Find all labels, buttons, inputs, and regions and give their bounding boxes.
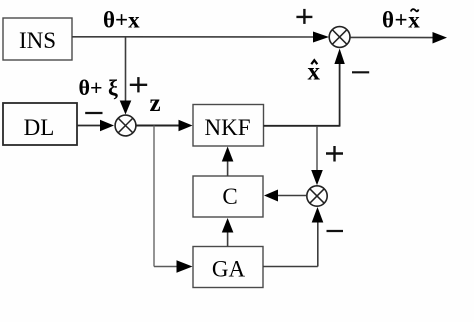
svg-text:z: z (150, 90, 161, 117)
wire z branch to GA (154, 260, 193, 272)
label minus at S3 (327, 230, 344, 232)
summer S2 (115, 115, 136, 136)
label plus at S3 (326, 146, 343, 162)
label minus at S2 (85, 112, 102, 114)
label minus at S1 (352, 71, 369, 73)
wire GA to C (222, 218, 234, 247)
svg-text:θ: θ (382, 8, 394, 33)
label plus at S1 (296, 9, 312, 24)
summer S3 (307, 186, 327, 206)
svg-text:C: C (222, 184, 237, 209)
wire NKF output (264, 125, 340, 127)
label theta+xtilde (382, 8, 420, 33)
wire INS output to summer S1 (72, 32, 329, 43)
wire DL output to summer S2 (77, 120, 114, 132)
label theta+xi (79, 75, 119, 100)
label theta+x (103, 8, 140, 33)
label xhat (308, 59, 321, 86)
box C (193, 176, 263, 217)
wire C to NKF (222, 147, 234, 177)
label plus at S2 (130, 77, 147, 92)
box NKF (193, 105, 264, 147)
wire S2 to NKF (136, 120, 192, 132)
svg-text:θ+ ξ: θ+ ξ (79, 75, 119, 100)
node z junction (153, 126, 155, 267)
svg-text:NKF: NKF (204, 115, 250, 140)
box GA (193, 247, 263, 288)
svg-text:x: x (308, 59, 321, 86)
wire xhat feedback up to summer S1 (334, 49, 344, 127)
svg-text:+: + (395, 8, 408, 33)
label z (150, 90, 161, 117)
wire GA output to summer S3 (263, 207, 323, 267)
svg-text:θ+x: θ+x (103, 8, 140, 33)
svg-text:DL: DL (24, 115, 55, 140)
wire S1 output (350, 32, 447, 44)
node junction theta+x branch (120, 37, 132, 115)
box DL (3, 103, 77, 145)
svg-text:GA: GA (212, 257, 246, 282)
box INS (3, 18, 72, 60)
summer S1 (329, 27, 350, 48)
wire NKF output down to summer S3 (311, 126, 323, 185)
svg-text:INS: INS (19, 28, 56, 53)
wire S3 to C (264, 190, 307, 202)
